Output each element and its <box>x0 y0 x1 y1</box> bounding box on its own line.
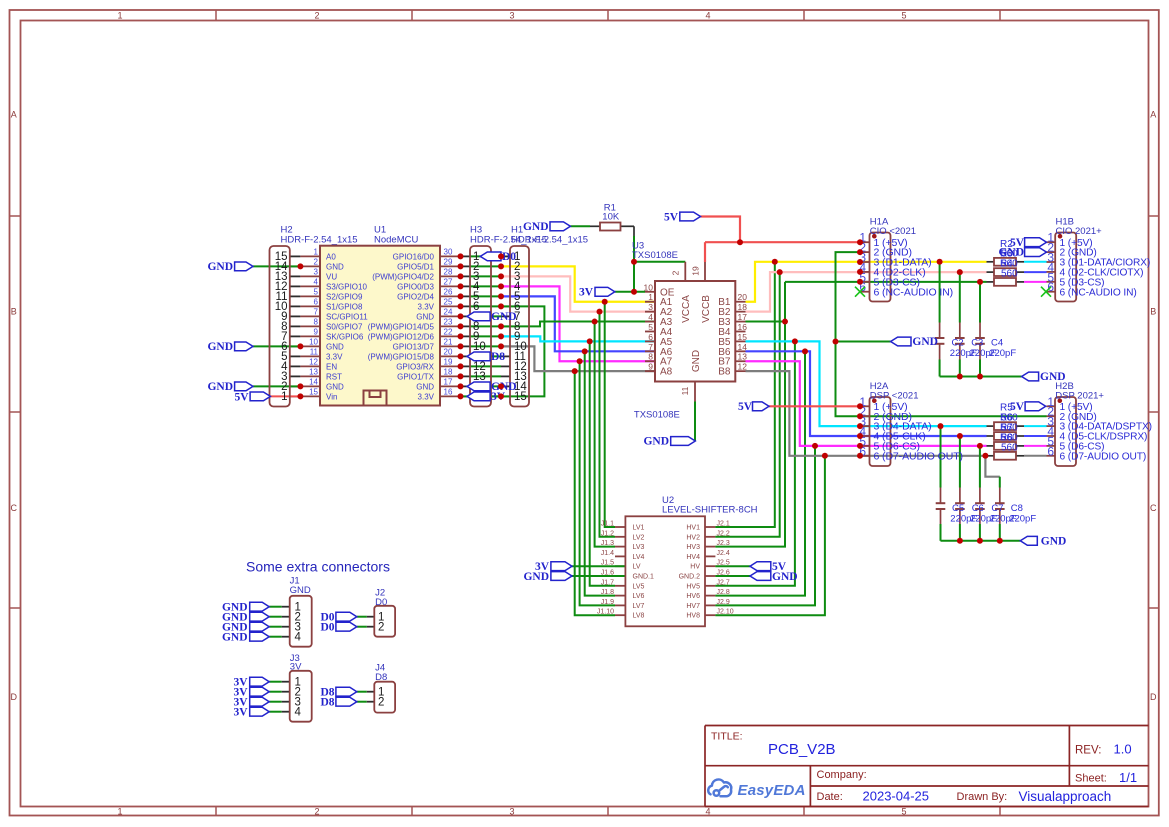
connector H1A CIO <2021 <box>870 233 891 302</box>
svg-text:SC/GPIO11: SC/GPIO11 <box>326 312 368 321</box>
net flag 3V at J3.3 <box>250 697 270 706</box>
svg-text:PCB_V2B: PCB_V2B <box>768 741 836 758</box>
capacitor C4 220pF <box>975 337 985 339</box>
resistor R7 560 <box>994 442 1016 450</box>
wire: U1-H3-H1 interconnect rows (green) <box>470 255 501 257</box>
svg-text:CIO 2021+: CIO 2021+ <box>1056 226 1103 237</box>
svg-text:GND: GND <box>998 247 1024 259</box>
no-connect X H1A pin6 <box>855 287 865 297</box>
svg-text:GPIO3/RX: GPIO3/RX <box>396 362 434 371</box>
wire: GND net from H1A.2 down to H2A.2 and H2B.2 <box>836 252 1047 416</box>
svg-text:VU: VU <box>326 272 337 281</box>
wire: H2A pin stubs <box>861 405 870 407</box>
connector H2A DSP <2021 <box>870 397 891 466</box>
svg-text:22: 22 <box>444 328 453 337</box>
svg-text:C4: C4 <box>991 338 1003 349</box>
svg-text:3V: 3V <box>579 287 594 299</box>
svg-text:LV6: LV6 <box>633 593 645 600</box>
svg-text:J2.4: J2.4 <box>717 550 730 557</box>
svg-text:HV8: HV8 <box>686 613 700 620</box>
capacitor C3 220pF <box>955 337 965 339</box>
svg-text:GND: GND <box>523 571 549 583</box>
junction dots VCCA/OE <box>631 259 637 265</box>
net flag GND at H2.14 <box>235 262 253 271</box>
wire: 5V flag wire to U2 HV <box>715 565 750 567</box>
wire: net 3V3 green H1.6 down to H1.15 <box>461 306 545 396</box>
junction dots C bus1 <box>957 374 963 380</box>
net flag GND at J1.1 <box>250 602 270 611</box>
net flag 5V at H2.1 <box>250 392 270 401</box>
svg-text:GND: GND <box>772 571 798 583</box>
wire: 3V flag to OE <box>615 291 645 293</box>
wire: U3 GND pin to GND flag <box>694 402 696 442</box>
svg-text:J2.5: J2.5 <box>717 560 730 567</box>
svg-text:VCCA: VCCA <box>681 295 692 323</box>
svg-text:220pF: 220pF <box>1009 513 1036 524</box>
svg-text:D: D <box>1150 692 1157 702</box>
junction dots capacitor taps C2-C4 <box>937 259 943 265</box>
svg-text:6 (NC-AUDIO IN): 6 (NC-AUDIO IN) <box>874 286 954 298</box>
svg-text:6 (NC-AUDIO IN): 6 (NC-AUDIO IN) <box>1060 287 1137 298</box>
svg-text:3V: 3V <box>233 706 248 718</box>
svg-text:D8: D8 <box>491 351 505 363</box>
svg-text:8: 8 <box>314 318 319 327</box>
wire: U2 HV7 riser to magenta net <box>715 446 815 606</box>
svg-text:C5: C5 <box>952 503 964 514</box>
svg-text:5V: 5V <box>234 392 249 404</box>
svg-text:27: 27 <box>444 278 453 287</box>
wire: 3V flag wire to U2 LV <box>572 565 625 567</box>
svg-text:C: C <box>10 503 17 513</box>
svg-text:17: 17 <box>444 378 453 387</box>
svg-text:2: 2 <box>314 10 319 20</box>
svg-text:8: 8 <box>648 352 653 362</box>
svg-text:1: 1 <box>117 806 122 816</box>
net flag GND at J1.4 <box>250 632 270 641</box>
svg-text:GND: GND <box>691 350 702 372</box>
wire: U2 HV2 riser to salmon net <box>715 272 779 537</box>
svg-text:GND: GND <box>207 341 233 353</box>
svg-text:6: 6 <box>314 298 319 307</box>
svg-text:GND: GND <box>491 311 517 323</box>
wire: H2/U1 row wires (black) and U1 left stubs <box>290 255 301 257</box>
svg-text:Some extra connectors: Some extra connectors <box>246 559 390 575</box>
junction dot GND mid <box>833 339 839 345</box>
connector H1B CIO 2021+ <box>1055 233 1076 302</box>
svg-text:EasyEDA: EasyEDA <box>738 782 806 799</box>
svg-text:GND: GND <box>643 436 669 448</box>
svg-text:3V: 3V <box>290 662 302 673</box>
svg-text:6 (D7-AUDIO OUT): 6 (D7-AUDIO OUT) <box>874 450 963 462</box>
svg-text:Drawn By:: Drawn By: <box>957 791 1008 803</box>
svg-text:10: 10 <box>644 282 654 292</box>
wire: U2 HV8 riser to gray net <box>715 456 825 615</box>
svg-text:4: 4 <box>705 10 710 20</box>
svg-text:13: 13 <box>309 368 318 377</box>
svg-text:TITLE:: TITLE: <box>711 730 743 742</box>
svg-text:GND: GND <box>326 342 344 351</box>
svg-text:17: 17 <box>738 312 748 322</box>
svg-text:GPIO1/TX: GPIO1/TX <box>397 372 435 381</box>
connector J4 D8 <box>374 682 395 713</box>
net flag GND at H1B.2 <box>1025 248 1047 257</box>
svg-text:J1.7: J1.7 <box>601 579 614 586</box>
svg-text:2: 2 <box>314 806 319 816</box>
svg-text:1: 1 <box>314 248 319 257</box>
connector H3 HDR-F-2.54_1x15 <box>470 246 491 407</box>
wire: H1A pin stubs <box>861 241 870 243</box>
svg-text:LV1: LV1 <box>633 525 645 532</box>
svg-text:1/1: 1/1 <box>1119 770 1137 785</box>
svg-text:1: 1 <box>281 391 287 403</box>
svg-text:12: 12 <box>309 358 318 367</box>
svg-text:A: A <box>1150 110 1156 120</box>
svg-text:11: 11 <box>310 348 319 357</box>
capacitor C2 220pF <box>935 337 945 339</box>
svg-text:10: 10 <box>309 338 318 347</box>
svg-text:LV8: LV8 <box>633 613 645 620</box>
svg-text:13: 13 <box>738 352 748 362</box>
junction dots capacitor taps C5-C8 <box>938 423 944 429</box>
svg-text:18: 18 <box>444 368 453 377</box>
svg-text:LV: LV <box>633 564 641 571</box>
svg-text:J2.3: J2.3 <box>717 540 730 547</box>
net flag GND at C2-C4 bus <box>1022 372 1039 381</box>
connector H1 HDR-F-2.54_1x15 <box>510 246 529 407</box>
net flag D0 at J2.2 <box>336 622 357 631</box>
svg-text:GPIO5/D1: GPIO5/D1 <box>397 262 434 271</box>
wire: U1 right stubs <box>440 255 461 257</box>
svg-text:GND: GND <box>523 221 549 233</box>
svg-text:20: 20 <box>738 292 748 302</box>
svg-text:GND.1: GND.1 <box>633 574 655 581</box>
wire: net D6 magenta U3 B7 to H2A.5 / R8 <box>746 361 987 446</box>
junction dots left side H2/U1 <box>297 263 303 269</box>
svg-text:GPIO13/D7: GPIO13/D7 <box>393 342 435 351</box>
net flag GND at H2.2 <box>235 382 253 391</box>
svg-text:Sheet:: Sheet: <box>1075 773 1107 785</box>
svg-text:C7: C7 <box>991 503 1003 514</box>
svg-text:5: 5 <box>901 806 906 816</box>
svg-text:GND: GND <box>290 585 311 596</box>
svg-text:CIO <2021: CIO <2021 <box>870 226 916 237</box>
svg-text:GND: GND <box>416 312 434 321</box>
svg-text:J1.6: J1.6 <box>601 570 614 577</box>
op-amp U1 NodeMCU body <box>320 246 440 406</box>
wire: C5-C8 branches and GND bus <box>940 426 942 487</box>
svg-text:D0: D0 <box>502 251 516 263</box>
svg-text:2: 2 <box>378 697 384 709</box>
svg-text:HDR-F-2.54_1x15: HDR-F-2.54_1x15 <box>281 234 358 245</box>
svg-text:5: 5 <box>901 10 906 20</box>
connector J2 D0 <box>374 606 395 637</box>
wire: H2B pin stubs <box>1047 405 1056 407</box>
net flag 3V at J3.4 <box>250 707 270 716</box>
svg-text:GPIO2/D4: GPIO2/D4 <box>397 292 434 301</box>
svg-text:6 (D7-AUDIO OUT): 6 (D7-AUDIO OUT) <box>1060 451 1147 462</box>
svg-text:14: 14 <box>738 342 748 352</box>
svg-text:GPIO16/D0: GPIO16/D0 <box>393 252 435 261</box>
wire: U2 HV6 riser to blue net <box>715 351 805 595</box>
svg-text:20: 20 <box>444 348 453 357</box>
net flag GND at U2 GND.1 <box>551 572 572 581</box>
junction dots U1 right pins <box>458 253 464 259</box>
svg-text:GND: GND <box>207 381 233 393</box>
wire: J3 flag wires <box>269 681 282 683</box>
svg-text:19: 19 <box>444 358 453 367</box>
svg-text:1: 1 <box>648 292 653 302</box>
net flag GND at H3.7 <box>467 312 490 321</box>
wire: 5V flag to H2A.1 <box>769 405 861 407</box>
net flag 3V at J3.2 <box>250 687 270 696</box>
net flag 3V at H3.15 <box>467 392 490 401</box>
svg-text:11: 11 <box>680 386 690 395</box>
svg-text:J1.9: J1.9 <box>601 599 614 606</box>
title block <box>705 726 1149 807</box>
svg-text:J2.6: J2.6 <box>717 570 730 577</box>
svg-text:(PWM)GPIO12/D6: (PWM)GPIO12/D6 <box>368 332 435 341</box>
svg-text:C2: C2 <box>952 338 964 349</box>
svg-text:J2.10: J2.10 <box>717 609 734 616</box>
svg-text:19: 19 <box>691 266 701 276</box>
resistor R6 560 <box>994 432 1016 440</box>
wire: J1 flag wires <box>269 606 282 608</box>
svg-text:HV5: HV5 <box>686 583 700 590</box>
net flag GND at H3.14 <box>467 382 490 391</box>
wire: U2 HV1 riser to yellow net <box>715 262 774 527</box>
capacitor C5 220pF <box>936 502 946 504</box>
svg-text:REV:: REV: <box>1075 745 1101 757</box>
svg-text:3.3V: 3.3V <box>418 302 435 311</box>
svg-text:SK/GPIO6: SK/GPIO6 <box>326 332 364 341</box>
svg-text:B: B <box>11 307 17 317</box>
svg-text:560: 560 <box>1001 442 1018 453</box>
connector J3 3V <box>290 671 312 722</box>
wire: net D7 gray H1.10 to U3 A8 <box>501 346 655 371</box>
svg-text:HV6: HV6 <box>686 593 700 600</box>
wire: J4 flag wires <box>357 691 367 693</box>
svg-text:7: 7 <box>314 308 319 317</box>
svg-text:GND: GND <box>912 336 938 348</box>
svg-text:J1.2: J1.2 <box>601 530 614 537</box>
resistor R2 560 <box>994 258 1016 266</box>
svg-text:4: 4 <box>314 278 319 287</box>
resistor R4 560 <box>994 278 1016 286</box>
wire: H1 pin stubs <box>501 255 510 257</box>
net flag D8 at J4.1 <box>336 687 357 696</box>
wire: gray jog to C8 <box>985 456 999 477</box>
svg-text:16: 16 <box>738 322 748 332</box>
svg-text:Visualapproach: Visualapproach <box>1019 789 1112 804</box>
svg-text:1: 1 <box>117 10 122 20</box>
net flag GND at U2 GND.2 <box>750 572 771 581</box>
svg-text:14: 14 <box>309 378 318 387</box>
svg-text:23: 23 <box>444 318 453 327</box>
U1 USB notch <box>364 391 387 405</box>
junction dots H1 pins <box>498 253 504 259</box>
svg-text:HV1: HV1 <box>686 525 700 532</box>
svg-text:J2.8: J2.8 <box>717 589 730 596</box>
svg-text:J1.8: J1.8 <box>601 589 614 596</box>
svg-text:12: 12 <box>738 362 748 372</box>
wire: 5V flag wire to H2 pin1/U1 pin15 (Vin) <box>265 395 301 397</box>
net flag GND at R1 <box>550 222 570 231</box>
svg-text:2: 2 <box>314 258 319 267</box>
svg-text:HV4: HV4 <box>686 554 700 561</box>
wire: resistor leads and H1B/H2B pin wires <box>987 261 995 263</box>
svg-text:J1.3: J1.3 <box>601 540 614 547</box>
svg-text:1.0: 1.0 <box>1114 742 1132 757</box>
wire: GND flag wire to H2 pin2/U1 pin14 <box>253 385 300 387</box>
net flag D8 at H3.11 <box>467 352 490 361</box>
svg-text:10K: 10K <box>602 211 620 222</box>
wire: 5V flag to VCCB and H1A pin1 <box>701 217 741 243</box>
svg-text:5V: 5V <box>738 401 753 413</box>
svg-text:J2.2: J2.2 <box>717 530 730 537</box>
wire: net D7 gray U3 B8 to H2A.6 / R8b <box>746 371 987 456</box>
net flag 5V at H1B.1 <box>1025 238 1047 247</box>
svg-text:Company:: Company: <box>817 769 867 781</box>
resistor R5 560 <box>994 422 1016 430</box>
svg-text:C3: C3 <box>971 338 983 349</box>
svg-text:3: 3 <box>509 806 514 816</box>
svg-text:3: 3 <box>314 268 319 277</box>
IC U3 TXS0108E <box>655 281 735 382</box>
svg-text:220pF: 220pF <box>989 348 1016 359</box>
svg-text:TXS0108E: TXS0108E <box>632 250 678 261</box>
svg-text:2: 2 <box>378 622 384 634</box>
junction dots B-side risers <box>772 259 778 265</box>
svg-text:B8: B8 <box>718 367 731 378</box>
svg-text:Vin: Vin <box>326 392 337 401</box>
junction dots A-side risers <box>602 299 608 305</box>
wire: net D1 yellow H1.2 to U3 A1 <box>501 266 655 301</box>
svg-text:29: 29 <box>444 258 453 267</box>
net flag 5V at VCCB <box>680 212 701 221</box>
net flag GND mid right <box>891 337 911 346</box>
svg-text:21: 21 <box>444 338 453 347</box>
wire: VCCA feed <box>634 261 685 263</box>
svg-text:LV5: LV5 <box>633 583 645 590</box>
svg-text:LV4: LV4 <box>633 554 645 561</box>
svg-text:TXS0108E: TXS0108E <box>634 410 680 421</box>
svg-text:15: 15 <box>309 388 318 397</box>
wire: GND flag wire to U2 GND.2 <box>715 575 750 577</box>
svg-text:LV3: LV3 <box>633 544 645 551</box>
wire: net D5 green H1.8 to U3 A3 <box>501 322 655 327</box>
svg-text:GND: GND <box>326 382 344 391</box>
net flag 3V at J3.1 <box>250 677 270 686</box>
net flag 3V at U3 OE <box>595 287 615 296</box>
svg-text:DSP 2021+: DSP 2021+ <box>1055 390 1104 401</box>
svg-text:30: 30 <box>444 248 453 257</box>
net flag 5V at H2A.1 <box>753 402 770 411</box>
svg-text:B: B <box>1150 307 1156 317</box>
no-connect X H1B pin6 <box>1041 287 1051 297</box>
svg-text:(PWM)GPIO15/D8: (PWM)GPIO15/D8 <box>368 352 435 361</box>
svg-text:LEVEL-SHIFTER-8CH: LEVEL-SHIFTER-8CH <box>662 505 758 516</box>
wire: net D3 magenta H1.4 to U3 A7 <box>501 286 655 361</box>
svg-text:DSP <2021: DSP <2021 <box>870 390 919 401</box>
svg-text:3: 3 <box>509 10 514 20</box>
svg-text:NodeMCU: NodeMCU <box>374 234 418 245</box>
svg-text:GND: GND <box>222 631 248 643</box>
svg-text:Date:: Date: <box>817 791 843 803</box>
wire: net D2 salmon H1.3 to U3 A2 <box>501 276 655 311</box>
svg-text:C8: C8 <box>1011 503 1023 514</box>
wire: net D5 blue U3 B6 to H2A.4 / R7 <box>746 351 987 436</box>
svg-text:5: 5 <box>648 322 653 332</box>
svg-text:9: 9 <box>314 328 319 337</box>
svg-text:A: A <box>11 110 17 120</box>
svg-text:D0: D0 <box>320 621 334 633</box>
junction dots H1A pins <box>857 239 863 245</box>
svg-text:LV2: LV2 <box>633 534 645 541</box>
svg-text:3.3V: 3.3V <box>418 392 435 401</box>
svg-text:24: 24 <box>444 308 453 317</box>
svg-text:16: 16 <box>444 388 453 397</box>
svg-text:J1.5: J1.5 <box>601 560 614 567</box>
EasyEDA logo <box>708 779 731 796</box>
resistor R8 560 <box>994 452 1016 460</box>
svg-text:4: 4 <box>648 312 653 322</box>
svg-text:GND.2: GND.2 <box>679 574 701 581</box>
svg-text:LV7: LV7 <box>633 603 645 610</box>
svg-text:D0: D0 <box>375 597 387 608</box>
svg-text:560: 560 <box>1001 269 1018 280</box>
net flag 5V at H2B.1 <box>1025 402 1046 411</box>
net flag D8 at J4.2 <box>336 697 357 706</box>
svg-text:18: 18 <box>738 302 748 312</box>
junction dots C bus2 <box>957 538 963 544</box>
svg-text:4: 4 <box>705 806 710 816</box>
capacitor C8 220pF <box>995 502 1005 504</box>
svg-text:VCCB: VCCB <box>701 295 712 323</box>
svg-text:GND: GND <box>207 261 233 273</box>
wire: U2 left pin stubs <box>615 526 625 528</box>
svg-text:C: C <box>1150 503 1157 513</box>
svg-text:GPIO0/D3: GPIO0/D3 <box>397 282 434 291</box>
wire: GND flag wire to U2 GND.1 <box>572 575 625 577</box>
svg-text:HV3: HV3 <box>686 544 700 551</box>
wire: U2 HV3 riser to green net B3 <box>715 282 785 547</box>
svg-text:C6: C6 <box>972 503 984 514</box>
net flag 5V at U2 HV <box>750 562 771 571</box>
svg-text:A8: A8 <box>660 367 673 378</box>
net flag GND at H2.6 <box>235 342 253 351</box>
svg-text:5V: 5V <box>1010 401 1025 413</box>
svg-text:S1/GPIO8: S1/GPIO8 <box>326 302 363 311</box>
svg-text:5V: 5V <box>664 211 679 223</box>
svg-text:A0: A0 <box>326 252 336 261</box>
wire: net D6 cyan H1.9 to U3 A5 <box>501 336 655 341</box>
svg-text:D8: D8 <box>320 696 334 708</box>
svg-text:4: 4 <box>295 707 302 719</box>
connector J1 GND <box>290 596 312 647</box>
svg-text:5: 5 <box>314 288 319 297</box>
svg-text:S2/GPIO9: S2/GPIO9 <box>326 292 363 301</box>
svg-text:D: D <box>10 692 17 702</box>
wire: J2 flag wires <box>357 616 367 618</box>
wire: GND flag wire (mid right) <box>836 341 891 343</box>
svg-text:GND: GND <box>1040 371 1066 383</box>
svg-text:(PWM)GPIO14/D5: (PWM)GPIO14/D5 <box>368 322 435 331</box>
net flag GND at J1.2 <box>250 612 270 621</box>
wire: U3 pin stubs <box>645 291 655 293</box>
svg-text:J2.1: J2.1 <box>717 521 730 528</box>
wire: GND flag wire to H2 pin14/U1 pin2 <box>253 265 300 267</box>
wire: R1 right to VCCA/OE <box>621 225 635 227</box>
